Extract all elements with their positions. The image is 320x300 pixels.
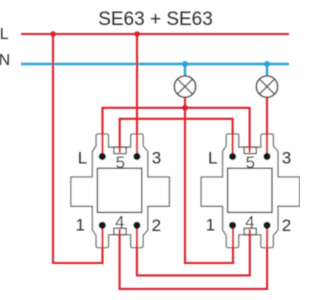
svg-text:5: 5 (246, 153, 255, 172)
svg-text:1: 1 (75, 216, 84, 235)
svg-text:L: L (0, 26, 9, 43)
svg-text:2: 2 (152, 216, 161, 235)
svg-text:5: 5 (116, 153, 125, 172)
svg-text:SE63 + SE63: SE63 + SE63 (98, 9, 213, 30)
svg-text:4: 4 (245, 213, 254, 232)
svg-text:3: 3 (282, 149, 291, 168)
svg-text:3: 3 (152, 149, 161, 168)
svg-text:4: 4 (115, 213, 124, 232)
svg-text:L: L (78, 149, 87, 168)
svg-text:L: L (208, 149, 217, 168)
svg-text:2: 2 (282, 216, 291, 235)
svg-text:N: N (0, 52, 10, 69)
svg-text:1: 1 (206, 216, 215, 235)
